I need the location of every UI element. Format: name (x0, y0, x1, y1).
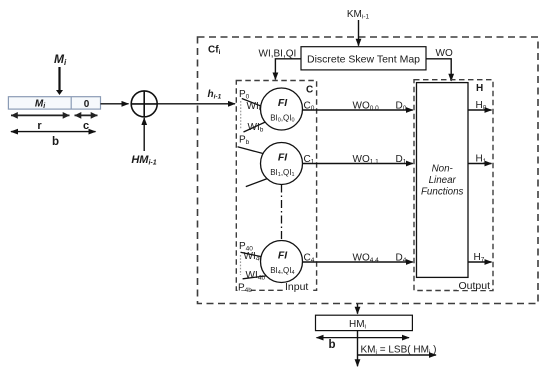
wire HM_i down out (357, 331, 359, 367)
svg-text:Cfi: Cfi (208, 45, 221, 57)
svg-text:BI0,QI0: BI0,QI0 (270, 114, 294, 124)
svg-text:0: 0 (84, 99, 90, 110)
FI unit 4 (261, 241, 303, 283)
svg-text:WO1.1: WO1.1 (353, 154, 380, 166)
FI unit 0 (261, 88, 303, 130)
Output dashed box H (414, 80, 493, 291)
svg-text:H7: H7 (474, 252, 485, 264)
svg-text:FI: FI (278, 97, 288, 109)
ellipsis dash-dot wire FI1 to FI4 (281, 185, 283, 241)
wire H7 out (468, 252, 492, 264)
svg-text:D4: D4 (396, 253, 407, 265)
compression function box Cf_i (outer dashed) (198, 37, 539, 304)
wire block to XOR (101, 103, 129, 105)
svg-text:KMi = LSB( HMi ): KMi = LSB( HMi ) (361, 345, 437, 357)
svg-text:BI1,QI1: BI1,QI1 (270, 168, 294, 178)
wire WO elbow into Non-Linear Functions (426, 48, 453, 81)
Input dashed box (236, 81, 316, 291)
wire C1 / WO1.1 / D1 (303, 154, 413, 166)
svg-text:WO4.4: WO4.4 (353, 252, 380, 264)
hash block HM_i (316, 315, 413, 330)
arrow Cf output down into HM_i (357, 304, 359, 314)
svg-text:D1: D1 (396, 154, 407, 166)
svg-text:P0: P0 (239, 89, 250, 101)
wire C0 / WO0.0 / D0 (303, 100, 413, 112)
svg-text:Output: Output (459, 280, 491, 292)
svg-text:Input: Input (285, 281, 308, 293)
wires into FI1 (238, 147, 264, 154)
wire WI_b into FI0 (244, 122, 267, 133)
svg-text:Mi: Mi (54, 52, 67, 67)
c double arrow (75, 115, 98, 131)
svg-text:C0: C0 (304, 101, 315, 113)
svg-text:r: r (37, 120, 42, 132)
svg-text:C4: C4 (304, 253, 315, 265)
svg-text:Discrete Skew Tent Map: Discrete Skew Tent Map (307, 54, 420, 66)
branch KM_i = LSB(HM_i) (358, 345, 437, 357)
wire WI,BI,QI elbow into Input box (259, 49, 302, 80)
wire WI_4b into FI4 (243, 276, 269, 279)
svg-text:b: b (52, 136, 59, 148)
svg-text:Linear: Linear (429, 175, 457, 186)
svg-text:WO0.0: WO0.0 (353, 100, 380, 112)
wire H1 out (468, 154, 492, 166)
dotted range line P40..P4b (240, 255, 242, 275)
svg-text:hi-1: hi-1 (208, 89, 222, 101)
svg-text:H1: H1 (476, 154, 487, 166)
arrow KM down into tent map (358, 20, 360, 46)
svg-text:D0: D0 (396, 101, 407, 113)
arrow HM_{i-1} up into XOR (143, 118, 145, 151)
svg-text:KMi-1: KMi-1 (347, 9, 370, 21)
XOR node (131, 91, 157, 117)
padded message block M_i | 0 (8, 97, 100, 110)
wire WI_40 into FI4 (241, 252, 264, 257)
wire C4 / WO4.4 / D4 (303, 252, 413, 264)
svg-text:FI: FI (278, 152, 288, 164)
svg-text:H: H (476, 83, 483, 94)
node P_4b (237, 283, 251, 290)
wire XOR to Input box, label h_{i-1} (157, 103, 235, 105)
wire WI_0 into FI0 (242, 99, 263, 107)
b double arrow (11, 132, 96, 148)
wire H0 out (468, 100, 492, 112)
b double arrow under HM_i (317, 338, 410, 351)
dotted range line P0..Pb (240, 101, 242, 129)
svg-text:WI4b: WI4b (246, 270, 266, 282)
svg-text:c: c (83, 120, 89, 132)
svg-text:WI,BI,QI: WI,BI,QI (259, 49, 297, 60)
svg-text:WO: WO (436, 48, 453, 59)
Non-Linear Functions box (417, 83, 469, 278)
label Input (283, 281, 311, 293)
svg-text:C1: C1 (304, 154, 315, 166)
r double arrow (11, 115, 70, 131)
Discrete Skew Tent Map box (301, 47, 426, 70)
label Output (457, 280, 492, 292)
svg-text:b: b (328, 339, 335, 351)
bold arrow from M_i into padded block (56, 67, 63, 95)
svg-text:BI4,QI4: BI4,QI4 (270, 266, 294, 276)
svg-text:Pb: Pb (239, 134, 250, 146)
svg-text:HMi-1: HMi-1 (131, 154, 156, 167)
svg-text:H0: H0 (476, 100, 487, 112)
svg-text:Functions: Functions (421, 187, 464, 198)
svg-text:C: C (306, 85, 313, 96)
svg-text:FI: FI (278, 250, 288, 262)
svg-text:HMi: HMi (349, 319, 366, 331)
svg-text:Non-: Non- (432, 164, 454, 175)
FI unit 1 (261, 143, 303, 185)
